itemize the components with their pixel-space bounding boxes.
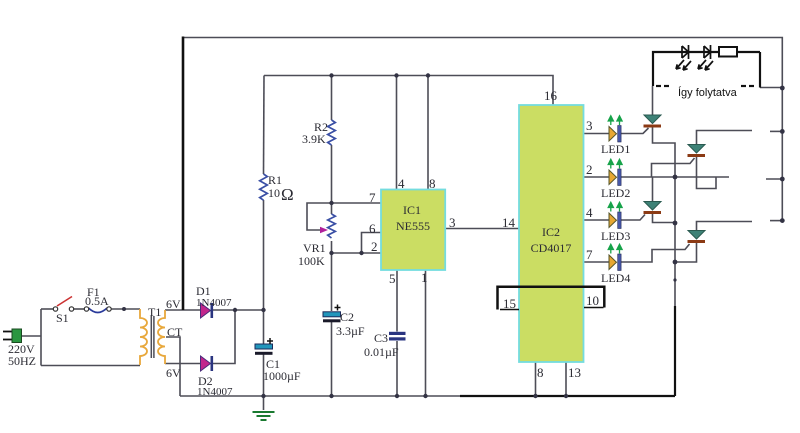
svg-text:0.5A: 0.5A: [85, 294, 109, 308]
svg-text:2: 2: [371, 239, 378, 254]
svg-text:LED2: LED2: [601, 186, 630, 200]
svg-text:Így folytatva: Így folytatva: [678, 86, 738, 99]
svg-text:VR1: VR1: [303, 241, 326, 255]
svg-text:IC2: IC2: [542, 225, 560, 239]
svg-text:D1: D1: [196, 284, 211, 298]
svg-text:8: 8: [429, 176, 436, 191]
svg-text:10: 10: [586, 293, 599, 308]
svg-text:CT: CT: [167, 325, 183, 339]
svg-text:Ω: Ω: [281, 185, 294, 204]
svg-text:7: 7: [586, 247, 593, 262]
svg-text:5: 5: [389, 271, 396, 286]
svg-text:1: 1: [421, 270, 428, 285]
svg-text:4: 4: [586, 205, 593, 220]
svg-text:3: 3: [449, 215, 456, 230]
svg-text:IC1: IC1: [403, 203, 421, 217]
svg-text:8: 8: [537, 365, 544, 380]
svg-text:15: 15: [503, 296, 516, 311]
svg-text:LED3: LED3: [601, 229, 630, 243]
svg-text:7: 7: [369, 190, 376, 205]
svg-text:3.3µF: 3.3µF: [336, 324, 365, 338]
svg-text:S1: S1: [56, 311, 69, 325]
svg-text:R1: R1: [268, 173, 282, 187]
svg-text:T1: T1: [148, 305, 161, 319]
svg-text:14: 14: [502, 215, 516, 230]
svg-text:CD4017: CD4017: [531, 241, 572, 255]
svg-text:6V: 6V: [166, 366, 181, 380]
svg-text:C3: C3: [374, 331, 388, 345]
svg-text:1000µF: 1000µF: [263, 369, 301, 383]
svg-text:C2: C2: [340, 310, 354, 324]
svg-text:10: 10: [268, 186, 280, 200]
svg-text:1N4007: 1N4007: [196, 297, 232, 309]
svg-text:0.01µF: 0.01µF: [364, 345, 399, 359]
svg-text:LED4: LED4: [601, 271, 630, 285]
svg-text:16: 16: [544, 88, 558, 103]
svg-text:50HZ: 50HZ: [8, 354, 36, 368]
svg-text:3.9K: 3.9K: [302, 132, 326, 146]
svg-text:NE555: NE555: [396, 219, 430, 233]
svg-text:13: 13: [568, 365, 581, 380]
svg-text:6V: 6V: [166, 297, 181, 311]
svg-text:6: 6: [369, 221, 376, 236]
svg-text:4: 4: [398, 176, 405, 191]
svg-text:3: 3: [586, 118, 593, 133]
svg-text:1N4007: 1N4007: [197, 386, 233, 398]
svg-text:100K: 100K: [298, 254, 325, 268]
svg-text:LED1: LED1: [601, 142, 630, 156]
svg-text:2: 2: [586, 162, 593, 177]
